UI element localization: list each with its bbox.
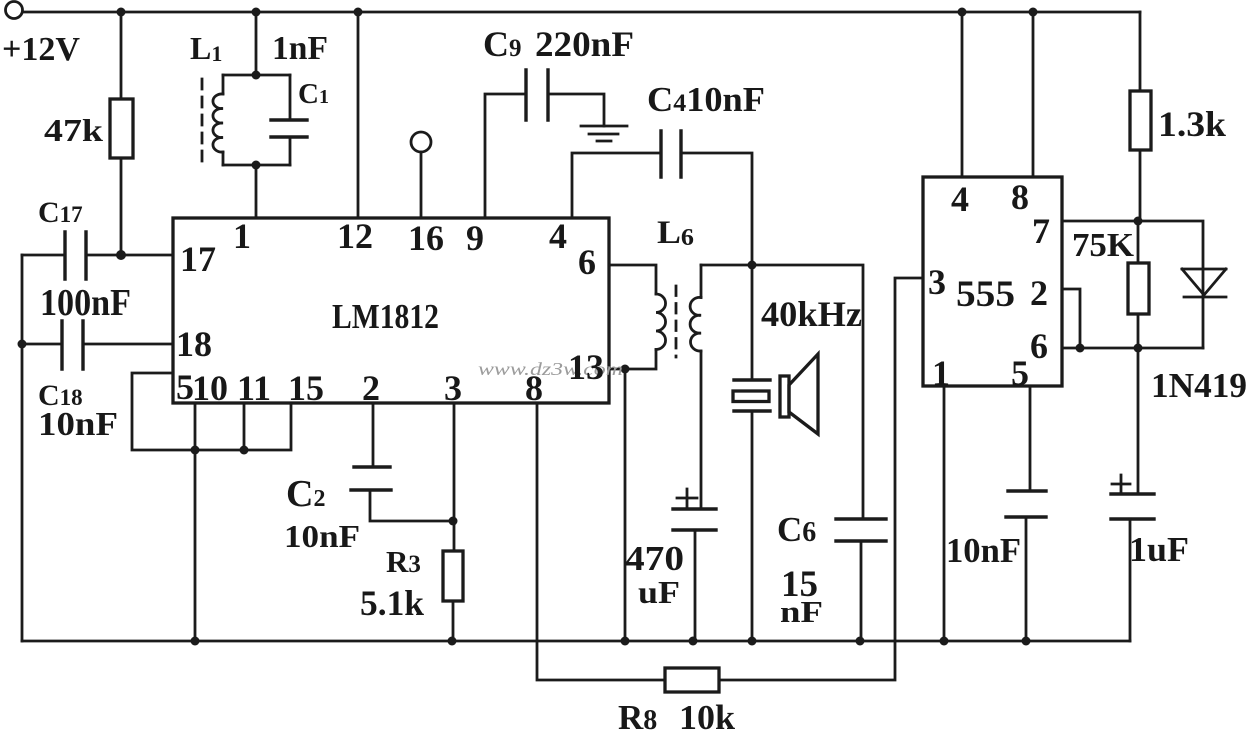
svg-text:10k: 10k bbox=[679, 698, 736, 730]
svg-text:10nF: 10nF bbox=[38, 406, 118, 443]
svg-text:6: 6 bbox=[578, 242, 596, 282]
svg-text:18: 18 bbox=[176, 324, 212, 364]
svg-text:4: 4 bbox=[549, 216, 567, 256]
svg-text:10: 10 bbox=[192, 368, 228, 408]
svg-text:13: 13 bbox=[568, 347, 604, 387]
svg-text:15: 15 bbox=[288, 368, 324, 408]
svg-text:1.3k: 1.3k bbox=[1158, 104, 1226, 144]
svg-text:470: 470 bbox=[625, 539, 684, 578]
svg-text:1: 1 bbox=[233, 216, 251, 256]
svg-text:11: 11 bbox=[237, 368, 271, 408]
svg-text:555: 555 bbox=[956, 274, 1015, 315]
svg-text:47k: 47k bbox=[44, 112, 103, 148]
svg-text:8: 8 bbox=[525, 368, 543, 408]
svg-text:1uF: 1uF bbox=[1129, 530, 1189, 569]
svg-text:9: 9 bbox=[466, 218, 484, 258]
svg-text:3: 3 bbox=[928, 262, 946, 302]
svg-text:6: 6 bbox=[1030, 326, 1048, 366]
svg-text:12: 12 bbox=[337, 216, 373, 256]
svg-text:10nF: 10nF bbox=[946, 531, 1021, 570]
svg-text:8: 8 bbox=[1011, 177, 1029, 217]
svg-text:10nF: 10nF bbox=[284, 518, 360, 554]
svg-text:4: 4 bbox=[951, 179, 969, 219]
svg-text:1: 1 bbox=[932, 353, 950, 393]
svg-text:5.1k: 5.1k bbox=[360, 583, 424, 623]
svg-text:16: 16 bbox=[408, 218, 444, 258]
svg-text:LM1812: LM1812 bbox=[332, 297, 439, 336]
svg-text:+12V: +12V bbox=[2, 31, 80, 68]
svg-text:17: 17 bbox=[180, 239, 216, 279]
svg-text:1nF: 1nF bbox=[272, 30, 328, 67]
svg-text:2: 2 bbox=[1030, 273, 1048, 313]
svg-text:7: 7 bbox=[1032, 211, 1050, 251]
svg-text:uF: uF bbox=[638, 574, 680, 610]
svg-text:100nF: 100nF bbox=[40, 282, 131, 324]
svg-text:3: 3 bbox=[444, 368, 462, 408]
svg-text:5: 5 bbox=[1011, 353, 1029, 393]
svg-text:40kHz: 40kHz bbox=[761, 294, 862, 334]
svg-text:220nF: 220nF bbox=[535, 24, 634, 64]
svg-text:1N419: 1N419 bbox=[1151, 366, 1246, 405]
svg-text:75K: 75K bbox=[1072, 227, 1135, 264]
svg-text:C410nF: C410nF bbox=[647, 80, 765, 119]
svg-text:nF: nF bbox=[780, 594, 823, 629]
svg-text:2: 2 bbox=[362, 368, 380, 408]
